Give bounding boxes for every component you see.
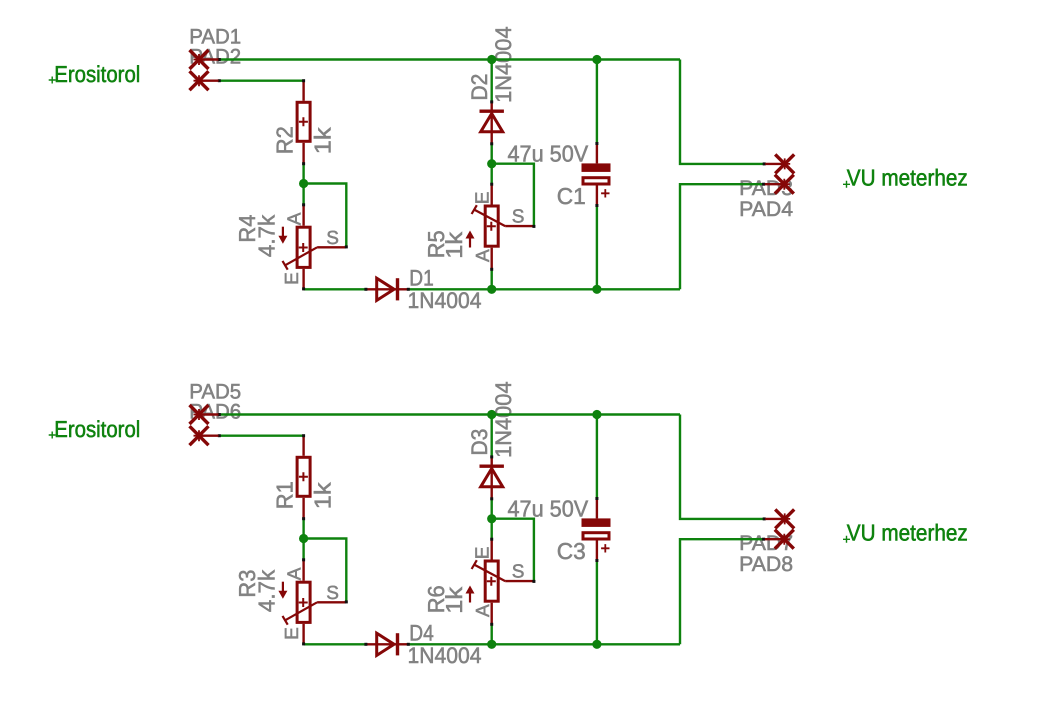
- wire bottom rail right: [408, 288, 680, 290]
- pad PAD3: [775, 154, 794, 173]
- diode D1: [366, 288, 398, 290]
- trimmer R5 wiper: [474, 210, 505, 227]
- junction: [592, 410, 601, 419]
- junction: [487, 640, 496, 649]
- svg-text:4.7k: 4.7k: [253, 214, 279, 257]
- pad PAD7: [775, 509, 794, 528]
- trimmer R3 wiper: [285, 602, 317, 620]
- wire bottom rail left: [304, 643, 367, 645]
- svg-text:E: E: [282, 627, 303, 640]
- capacitor C3: [596, 499, 598, 519]
- junction: [487, 159, 496, 168]
- svg-text:D1: D1: [409, 265, 434, 290]
- pad PAD6: [190, 426, 209, 445]
- wire top rail: [220, 413, 680, 415]
- junction: [487, 285, 496, 294]
- svg-text:PAD8: PAD8: [739, 553, 793, 576]
- trimmer R5: [485, 206, 498, 246]
- svg-text:1N4004: 1N4004: [491, 26, 516, 103]
- wire diode branch bottom: [491, 144, 493, 164]
- svg-text:1k: 1k: [310, 127, 336, 154]
- wire resistor bottom to junction: [302, 164, 304, 204]
- junction: [592, 55, 601, 64]
- wire S loop right trimmer: [492, 519, 534, 582]
- trimmer R3 S pin: [317, 601, 346, 603]
- wire bottom rail right: [408, 643, 680, 645]
- wire S loop left trimmer: [304, 539, 347, 602]
- trimmer R4: [297, 227, 310, 267]
- junction: [299, 179, 308, 188]
- trimmer R6: [485, 561, 498, 601]
- trimmer R4 arrow: [282, 227, 284, 240]
- svg-text:Erositorol: Erositorol: [54, 416, 140, 442]
- wire right drop to upper output pad: [680, 60, 765, 164]
- trimmer R5 arrow: [469, 234, 471, 247]
- wire cap branch top: [596, 60, 598, 144]
- svg-text:D4: D4: [409, 620, 434, 645]
- svg-text:PAD4: PAD4: [739, 198, 793, 221]
- svg-text:Erositorol: Erositorol: [54, 61, 140, 87]
- wire junction to trimmer E pin: [491, 164, 493, 185]
- wire bottom rail left: [304, 288, 367, 290]
- wire trimmer right bottom: [491, 625, 493, 645]
- svg-text:1N4004: 1N4004: [408, 643, 482, 668]
- wire S loop right trimmer: [492, 164, 534, 227]
- svg-text:C1: C1: [557, 183, 586, 209]
- resistor R1: [297, 457, 310, 496]
- wire top rail: [220, 58, 680, 60]
- svg-text:D2: D2: [467, 74, 492, 101]
- svg-text:E: E: [473, 192, 494, 205]
- svg-text:1N4004: 1N4004: [408, 288, 482, 313]
- resistor R2: [297, 102, 310, 141]
- capacitor C1: [596, 144, 598, 164]
- svg-text:S: S: [512, 562, 525, 583]
- junction: [487, 514, 496, 523]
- trimmer R4 wiper: [285, 247, 317, 265]
- wire cap branch top: [596, 415, 598, 499]
- wire input to resistor top: [220, 79, 304, 81]
- svg-text:1k: 1k: [310, 482, 336, 509]
- wire right rise to lower output pad: [680, 539, 764, 644]
- wire input to resistor top: [220, 435, 304, 437]
- diode D4: [366, 643, 398, 645]
- trimmer R3 arrow: [282, 582, 284, 595]
- svg-text:1N4004: 1N4004: [491, 381, 516, 458]
- trimmer R6 wiper: [474, 565, 505, 582]
- pad PAD5: [190, 405, 209, 424]
- svg-text:S: S: [326, 583, 339, 604]
- pad PAD2: [190, 71, 209, 90]
- trimmer R3: [297, 582, 310, 622]
- junction: [299, 534, 308, 543]
- wire S loop left trimmer: [304, 184, 347, 247]
- wire right drop to upper output pad: [680, 415, 765, 519]
- wire cap branch bottom: [596, 206, 598, 290]
- wire cap branch bottom: [596, 561, 598, 645]
- svg-text:VU meterhez: VU meterhez: [847, 165, 968, 191]
- wire junction to trimmer E pin: [491, 519, 493, 540]
- trimmer R4 S pin: [317, 246, 346, 248]
- pad PAD1: [190, 50, 209, 69]
- wire diode branch bottom: [491, 499, 493, 519]
- svg-text:R2: R2: [271, 126, 297, 154]
- junction: [592, 640, 601, 649]
- pad PAD8: [775, 530, 794, 549]
- trimmer R6 S pin: [505, 580, 534, 582]
- trimmer R5 S pin: [505, 225, 534, 227]
- wire diode branch top: [491, 415, 493, 458]
- svg-text:VU meterhez: VU meterhez: [847, 520, 968, 546]
- wire diode branch top: [491, 60, 493, 103]
- junction: [487, 410, 496, 419]
- svg-text:1k: 1k: [441, 231, 467, 258]
- wire trimmer right bottom: [491, 270, 493, 290]
- svg-text:D3: D3: [467, 429, 492, 456]
- pad PAD4: [775, 175, 794, 194]
- svg-text:E: E: [473, 547, 494, 560]
- pin connection ticks: [218, 413, 221, 416]
- svg-text:E: E: [282, 272, 303, 285]
- svg-text:1k: 1k: [441, 586, 467, 613]
- trimmer R6 arrow: [469, 589, 471, 602]
- diode D2: [491, 103, 493, 144]
- diode D3: [491, 458, 493, 499]
- junction: [487, 55, 496, 64]
- svg-text:4.7k: 4.7k: [253, 569, 279, 612]
- wire right rise to lower output pad: [680, 184, 764, 289]
- junction: [592, 285, 601, 294]
- pin connection ticks: [218, 58, 221, 61]
- wire resistor bottom to junction: [302, 519, 304, 559]
- svg-text:R1: R1: [271, 481, 297, 509]
- svg-text:C3: C3: [557, 538, 586, 564]
- svg-text:S: S: [512, 207, 525, 228]
- svg-text:S: S: [326, 228, 339, 249]
